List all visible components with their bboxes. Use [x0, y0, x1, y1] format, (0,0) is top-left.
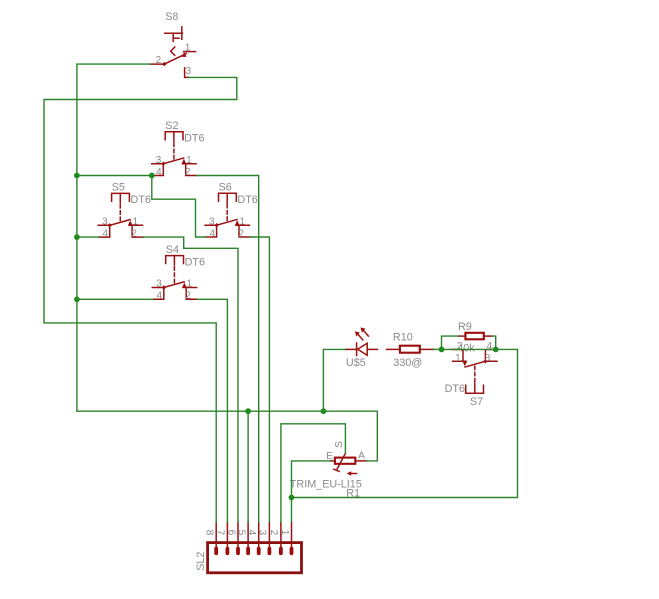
svg-text:8: 8	[204, 530, 215, 536]
svg-text:1: 1	[186, 155, 192, 166]
svg-text:3: 3	[156, 155, 162, 166]
svg-text:S8: S8	[165, 11, 178, 23]
svg-text:R9: R9	[458, 321, 472, 333]
svg-text:40k: 40k	[457, 342, 475, 354]
svg-text:DT6: DT6	[237, 194, 257, 206]
svg-text:S7: S7	[470, 396, 483, 408]
svg-text:4: 4	[156, 167, 162, 178]
LED U$5	[345, 327, 377, 369]
wire S2 pin2 to SL2 pin4	[197, 176, 259, 523]
svg-text:5: 5	[235, 530, 246, 536]
wire y411 junction to SL2 pin5	[247, 411, 249, 522]
svg-text:2: 2	[185, 167, 191, 178]
wire trimmer A to y411 bus	[367, 411, 378, 461]
svg-text:S2: S2	[165, 120, 178, 132]
svg-text:DT6: DT6	[445, 383, 465, 395]
wire junction up to trimmer E	[292, 461, 331, 498]
svg-text:2: 2	[238, 228, 244, 239]
wire junction to S6 pin4	[152, 176, 206, 238]
svg-text:2: 2	[268, 530, 279, 536]
svg-text:S4: S4	[166, 244, 179, 256]
switch S5 (DT6)	[98, 182, 151, 240]
wire R9 right to node	[492, 336, 496, 349]
switch S4 (DT6)	[152, 244, 205, 302]
resistor R10 330@	[387, 331, 434, 369]
svg-text:7: 7	[215, 530, 226, 536]
svg-text:DT6: DT6	[184, 133, 204, 145]
wire left bus to S2 pin4	[77, 175, 153, 177]
svg-text:3: 3	[485, 353, 491, 364]
junction dot at 76.9,236.8	[74, 234, 80, 240]
wire S6 pin2 to SL2 pin3	[250, 237, 269, 522]
svg-text:4: 4	[209, 228, 215, 239]
svg-text:SL2: SL2	[195, 552, 207, 571]
connector SL2	[195, 522, 302, 573]
wire node across S7	[442, 348, 496, 350]
svg-text:3: 3	[186, 66, 192, 77]
trimmer R1 TRIM_EU-LI15	[290, 441, 367, 500]
wire trimmer S to SL2 pin2	[281, 424, 346, 523]
junction dot at 291.5,497.5	[289, 495, 295, 501]
svg-text:4: 4	[157, 291, 163, 302]
svg-text:4: 4	[487, 341, 493, 352]
svg-text:2: 2	[131, 229, 137, 240]
svg-text:1: 1	[187, 279, 193, 290]
junction dot at 76.9,175.2	[74, 173, 80, 179]
switch S6 (DT6)	[205, 182, 258, 240]
junction dot at 151.8,175.2	[149, 173, 155, 179]
svg-text:3: 3	[102, 216, 108, 227]
svg-text:6: 6	[225, 530, 236, 536]
switch S7 (DT6, rotated 180)	[445, 341, 497, 408]
wire S8 pin3 to SL2 pin8	[44, 77, 237, 522]
svg-text:3: 3	[257, 530, 268, 536]
svg-text:U$5: U$5	[346, 357, 366, 369]
junction dot at 495.7,349.4	[493, 347, 499, 353]
svg-text:S6: S6	[219, 182, 232, 194]
junction dot at 323.4,411.2	[321, 408, 327, 414]
wire junction down to SL2 pin1	[291, 498, 293, 523]
wire R10 to node	[433, 348, 441, 350]
switch S8 (toggle)	[150, 11, 195, 77]
junction dot at 441.5,349.4	[439, 347, 445, 353]
wire S4 pin2 to SL2 pin7	[197, 299, 227, 522]
wire left bus to S5 pin4	[77, 236, 99, 238]
svg-text:A: A	[358, 451, 365, 462]
wire left bus to S4 pin4	[77, 298, 153, 300]
svg-text:S: S	[334, 441, 345, 448]
wire y411 to LED	[323, 349, 345, 411]
wire S8 pin2 to left bus	[77, 64, 150, 411]
svg-text:2: 2	[156, 55, 162, 66]
svg-text:1: 1	[279, 530, 290, 536]
wire bottom bus y411	[77, 410, 377, 412]
svg-text:1: 1	[133, 216, 139, 227]
wire node to R9 left	[442, 336, 459, 349]
svg-text:3: 3	[209, 216, 215, 227]
svg-text:2: 2	[185, 291, 191, 302]
svg-text:R10: R10	[393, 331, 413, 343]
junction dot at 76.9,298.8	[74, 296, 80, 302]
junction dot at 248.1,411.2	[245, 408, 251, 414]
svg-text:DT6: DT6	[131, 194, 151, 206]
svg-text:330@: 330@	[393, 357, 422, 369]
wire S5 pin2 to SL2 pin6	[143, 237, 238, 522]
svg-text:1: 1	[239, 216, 245, 227]
resistor R9 40k	[457, 321, 492, 354]
svg-text:1: 1	[455, 353, 461, 364]
svg-text:DT6: DT6	[185, 256, 205, 268]
svg-text:3: 3	[156, 279, 162, 290]
switch S2 (DT6)	[152, 120, 205, 178]
svg-text:S5: S5	[112, 182, 125, 194]
wire right loop to R1 row	[292, 349, 518, 497]
svg-text:4: 4	[102, 229, 108, 240]
svg-text:4: 4	[246, 530, 257, 536]
